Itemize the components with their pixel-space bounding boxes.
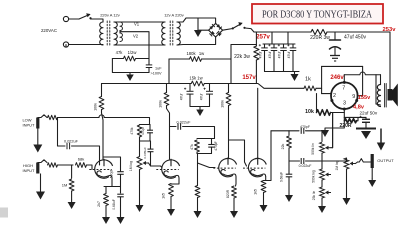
wire hop <box>99 115 104 118</box>
resistor 1k5 <box>169 184 174 197</box>
resistor 220R 3w <box>311 29 327 34</box>
wire <box>271 32 273 44</box>
wire <box>170 197 172 208</box>
resistor 2k7 <box>104 194 109 206</box>
wire cathode V1a <box>111 178 113 187</box>
wire <box>58 164 74 166</box>
svg-text:1M: 1M <box>62 183 68 188</box>
svg-text:7: 7 <box>342 86 345 92</box>
svg-text:POR D3C80 Y TONYGT-IBIZA: POR D3C80 Y TONYGT-IBIZA <box>262 9 372 21</box>
T1 core <box>106 21 108 46</box>
wire <box>105 206 107 214</box>
heater center tap wire <box>120 32 149 59</box>
svg-text:10k: 10k <box>305 109 314 115</box>
svg-text:246v: 246v <box>330 75 344 81</box>
wire <box>357 95 362 97</box>
wire V2a plate to V2b grid <box>229 140 247 166</box>
arrow to output jack <box>377 129 385 151</box>
wire <box>376 104 381 105</box>
title box <box>252 4 383 24</box>
wire <box>71 165 73 178</box>
switch SW1 blade <box>79 15 90 20</box>
wire <box>365 117 367 119</box>
wire <box>136 58 149 60</box>
wire <box>289 160 300 162</box>
wire <box>72 146 100 165</box>
svg-text:100k: 100k <box>158 100 162 108</box>
ground (cathode) <box>321 128 329 137</box>
svg-text:0.68uF: 0.68uF <box>280 172 284 182</box>
wire <box>283 44 285 48</box>
wire <box>334 32 336 40</box>
resistor (high) <box>48 163 58 167</box>
wire <box>327 31 390 33</box>
wire grid/screen node <box>321 66 323 93</box>
wire <box>202 58 232 60</box>
resistor 1M (grid leak) <box>195 186 200 198</box>
resistor 15k 1w <box>191 81 204 86</box>
wire <box>371 168 373 178</box>
T2 secondary winding <box>177 22 180 45</box>
wire <box>119 21 121 23</box>
ground <box>318 204 326 213</box>
preamp B+ rail <box>102 83 192 85</box>
wire <box>189 84 191 91</box>
capacitor 0.005uF <box>148 149 154 152</box>
winding V1 <box>120 22 122 31</box>
gray bar artifact <box>0 208 8 218</box>
standby switch dot <box>243 27 245 29</box>
svg-text:1k5: 1k5 <box>254 189 258 195</box>
ground arrow (rectifier) <box>194 18 202 37</box>
wire treble wiper <box>331 113 333 148</box>
wire <box>57 118 59 147</box>
wire <box>149 133 151 141</box>
ground <box>343 196 351 205</box>
wire <box>287 32 289 44</box>
wire <box>120 197 122 213</box>
resistor 180k 1w <box>190 57 202 62</box>
triode V1a <box>89 159 112 178</box>
svg-text:220VAC: 220VAC <box>41 28 57 33</box>
svg-text:47uf: 47uf <box>277 52 281 59</box>
ground <box>285 193 293 202</box>
svg-text:500k lin: 500k lin <box>311 143 315 155</box>
resistor 820R <box>232 186 237 198</box>
wire <box>316 94 318 113</box>
bridge diode mark <box>216 31 222 37</box>
svg-text:47uf: 47uf <box>287 52 291 59</box>
svg-text:0.022uF: 0.022uF <box>299 164 312 168</box>
wire <box>197 138 215 140</box>
ground <box>102 213 110 224</box>
wire <box>166 84 168 93</box>
wire <box>114 44 120 46</box>
svg-text:3: 3 <box>343 100 346 106</box>
socket pin <box>343 108 346 111</box>
svg-text:9: 9 <box>352 94 355 100</box>
ground (high jack) <box>36 174 45 200</box>
wire <box>197 154 199 186</box>
wire loop <box>112 59 149 73</box>
bridge diode mark <box>216 24 222 30</box>
wire <box>197 198 199 210</box>
triode V2b <box>243 157 266 176</box>
svg-text:2: 2 <box>333 93 336 99</box>
wire <box>149 125 151 131</box>
wire <box>197 153 212 155</box>
wire 157v rail <box>205 84 305 89</box>
wire <box>119 31 121 34</box>
svg-text:1M log: 1M log <box>129 161 133 171</box>
wire <box>196 152 198 154</box>
AC terminal N <box>63 42 68 47</box>
wire <box>331 112 345 114</box>
capacitor 47uf <box>184 88 194 95</box>
wire <box>263 193 265 201</box>
jack OUTPUT <box>371 154 374 168</box>
wire cathode <box>343 109 345 117</box>
wire <box>140 124 151 126</box>
svg-text:47uf: 47uf <box>258 52 262 59</box>
svg-text:157v: 157v <box>242 75 256 81</box>
wire <box>255 60 257 84</box>
resistor 68k (low) <box>48 115 58 119</box>
potentiometer 500k lin <box>320 142 331 153</box>
wire <box>211 139 213 145</box>
capacitor 47uf #1 <box>259 44 268 50</box>
svg-text:820R: 820R <box>226 189 230 198</box>
standby switch dot <box>232 27 234 29</box>
resistor 100k (V1b plate) <box>164 93 169 106</box>
capacitor 47uf <box>204 88 214 95</box>
capacitor 0.022uF <box>301 158 304 164</box>
wire <box>177 37 216 45</box>
wire <box>150 141 152 149</box>
capacitor 47uf #4 <box>287 44 296 50</box>
svg-text:68k: 68k <box>78 157 84 162</box>
wire <box>343 117 345 120</box>
switch contact dot <box>89 17 91 19</box>
wire <box>306 158 347 161</box>
wire <box>105 187 107 194</box>
wire to pin 9 <box>362 66 364 95</box>
triode V1b <box>156 159 179 178</box>
resistor 47k 1/2w <box>124 56 136 61</box>
svg-text:1k: 1k <box>305 77 311 83</box>
wire <box>389 85 391 89</box>
potentiometer 25k lin <box>320 187 331 198</box>
capacitor 470pF <box>208 145 215 148</box>
wire cathode follower out <box>266 131 271 181</box>
wire <box>292 44 294 48</box>
wire <box>65 45 67 48</box>
svg-text:22uf 50v: 22uf 50v <box>360 110 378 115</box>
T2 core <box>169 21 171 46</box>
wire <box>273 44 275 48</box>
wire to tone pot wiper <box>332 113 334 148</box>
wire <box>288 161 290 174</box>
resistor 22k <box>287 136 292 148</box>
resistor 1k5 <box>261 181 266 193</box>
wire cathode bus <box>344 116 366 118</box>
capacitor 22uf 50v <box>360 116 371 123</box>
capacitor 1uF <box>146 65 153 68</box>
wire to pin 2 <box>322 93 331 95</box>
jack LOW INPUT <box>36 118 39 129</box>
wire cathode bus <box>104 186 121 188</box>
ground (low jack) <box>33 129 42 153</box>
wire <box>168 59 170 84</box>
wire cap bank bottom bus <box>265 71 300 73</box>
ground (output jack) <box>368 178 376 187</box>
wire cathode V2b <box>264 177 266 181</box>
resistor 22k 3w <box>254 46 259 60</box>
wire plate V1b <box>167 106 170 160</box>
wire plate V2a <box>228 106 230 159</box>
wire plate to OT with hop <box>344 72 380 75</box>
svg-text:180k: 180k <box>186 51 196 56</box>
OT core <box>385 84 387 108</box>
OT primary winding <box>377 85 380 107</box>
svg-text:1k5: 1k5 <box>162 193 166 199</box>
resistor 470k <box>137 125 141 137</box>
ground <box>230 207 238 218</box>
wire <box>69 44 103 46</box>
ground <box>117 213 125 224</box>
wire <box>120 175 122 187</box>
OT core <box>384 84 386 108</box>
wire <box>223 29 232 31</box>
resistor 10k <box>317 110 331 116</box>
wire plate down <box>375 75 377 104</box>
svg-text:470pf: 470pf <box>141 127 145 135</box>
svg-text:2k7: 2k7 <box>97 201 101 207</box>
socket pin <box>343 81 346 84</box>
ground (3-bar) <box>330 56 340 62</box>
wire <box>119 21 121 23</box>
resistor 68k <box>76 163 87 168</box>
svg-text:>100V: >100V <box>151 71 163 75</box>
svg-text:1M log: 1M log <box>335 160 339 170</box>
wire B+ to OT <box>389 32 391 85</box>
svg-text:47uf: 47uf <box>268 52 272 59</box>
svg-text:22k 3w: 22k 3w <box>234 54 250 60</box>
wire to V2a grid <box>198 163 216 168</box>
svg-text:47uf: 47uf <box>199 94 203 101</box>
wire V2b plate to 157v rail <box>257 88 259 158</box>
wire wiper to V1b grid <box>149 163 163 168</box>
wire <box>264 51 266 72</box>
wire <box>365 122 367 128</box>
svg-text:22k: 22k <box>281 143 285 149</box>
svg-text:470k: 470k <box>130 127 134 135</box>
svg-text:220v A 12v: 220v A 12v <box>100 13 120 18</box>
resistor 1k <box>304 86 316 91</box>
ground <box>167 207 175 216</box>
wire <box>169 58 190 60</box>
wire <box>273 51 275 72</box>
svg-text:OUTPUT: OUTPUT <box>377 158 394 163</box>
wire <box>321 153 323 169</box>
svg-text:12v A 220v: 12v A 220v <box>164 13 184 18</box>
svg-text:47uf: 47uf <box>179 94 183 101</box>
wire <box>120 21 165 23</box>
svg-text:0.005uF: 0.005uF <box>143 147 147 158</box>
ground <box>194 209 202 218</box>
wire <box>316 87 322 89</box>
svg-text:0.022uF: 0.022uF <box>177 120 192 124</box>
ground <box>291 72 299 82</box>
wire <box>139 141 141 157</box>
capacitor 470pf <box>147 130 153 133</box>
wire <box>103 156 112 158</box>
wire <box>357 117 359 120</box>
svg-text:V2: V2 <box>133 34 139 39</box>
wire <box>380 75 382 85</box>
ground <box>126 73 134 82</box>
ground (bypass cap) <box>356 129 376 140</box>
socket pin <box>330 99 333 102</box>
svg-text:25k lin: 25k lin <box>312 191 316 201</box>
resistor 100k (V1a plate) <box>99 97 104 110</box>
wire cathode V2a <box>235 177 238 186</box>
ground <box>260 200 268 212</box>
wire plate V1a <box>102 110 104 160</box>
T1 secondary winding <box>114 22 117 45</box>
socket pin <box>355 99 358 102</box>
wire <box>334 48 336 55</box>
ground <box>136 203 144 212</box>
wire cathode V1b <box>171 178 179 184</box>
wire <box>321 198 323 204</box>
capacitor 0.022uF <box>67 143 70 150</box>
wire <box>183 127 215 139</box>
wire <box>288 148 290 161</box>
wire <box>231 44 256 46</box>
capacitor 0.022uF <box>178 123 181 130</box>
wire low channel <box>104 118 149 125</box>
AC terminal L <box>63 16 68 21</box>
T1 primary winding <box>100 22 103 45</box>
switch blade arrowhead <box>238 22 242 26</box>
wire low channel <box>58 117 100 119</box>
wire <box>346 169 348 196</box>
wire <box>170 126 177 128</box>
wire <box>325 121 344 128</box>
potentiometer 500k log <box>320 169 331 180</box>
wire <box>211 147 213 153</box>
wire to V1a grid <box>87 165 93 170</box>
bridge diode mark <box>209 24 215 30</box>
svg-text:155v: 155v <box>358 95 371 101</box>
wire <box>140 137 151 141</box>
svg-text:15k 1w: 15k 1w <box>189 75 203 80</box>
T2 primary winding <box>162 22 165 45</box>
svg-text:47uf 450v: 47uf 450v <box>344 35 366 41</box>
svg-text:100k: 100k <box>93 103 97 111</box>
wire <box>288 131 290 135</box>
wire <box>120 186 122 193</box>
triode V2a <box>213 157 236 176</box>
wire <box>148 68 150 73</box>
wire <box>321 180 323 187</box>
svg-text:253v: 253v <box>383 27 397 33</box>
wire <box>356 162 358 164</box>
wire <box>139 170 141 204</box>
capacitor 500pf <box>117 172 124 175</box>
svg-text:INPUT: INPUT <box>23 168 36 173</box>
svg-text:1/2w: 1/2w <box>128 50 138 55</box>
power tube socket <box>331 82 358 109</box>
svg-text:1uF: 1uF <box>155 66 162 70</box>
wire screen feed <box>322 65 363 67</box>
svg-text:100k: 100k <box>220 100 224 108</box>
wire <box>306 131 323 142</box>
jack HIGH INPUT <box>36 163 39 174</box>
capacitor 47uf #3 <box>278 44 287 50</box>
standby switch blade <box>234 24 242 29</box>
winding V2 <box>120 33 122 42</box>
wire <box>264 44 266 48</box>
svg-text:470pF: 470pF <box>214 141 218 150</box>
bridge rectifier D1 <box>209 23 223 37</box>
wire <box>233 198 235 207</box>
capacitor 0.68uF <box>117 194 124 197</box>
wire 257v rail <box>254 31 311 33</box>
wire plate <box>343 75 345 83</box>
resistor 220R <box>345 119 357 123</box>
ground <box>196 107 204 117</box>
capacitor 47uf #2 <box>268 44 277 50</box>
wire <box>69 18 79 20</box>
wire <box>288 177 290 193</box>
resistor 47k <box>195 140 200 152</box>
svg-text:0.022uF: 0.022uF <box>64 140 79 144</box>
wire <box>120 44 165 46</box>
jack tip contact <box>38 160 47 163</box>
wire cap bank top bus <box>263 43 295 45</box>
wire <box>228 84 230 93</box>
resistor 1M <box>69 179 74 191</box>
wire <box>177 18 216 24</box>
resistor 100k (V2a plate) <box>226 93 231 106</box>
switch blade arrowhead <box>86 13 90 17</box>
svg-text:500pf: 500pf <box>110 170 114 179</box>
wire <box>199 29 209 31</box>
svg-text:257v: 257v <box>256 33 270 40</box>
wire <box>209 84 211 91</box>
wire <box>58 145 66 147</box>
svg-text:500k log: 500k log <box>312 170 316 183</box>
jack tip contact <box>38 115 47 118</box>
svg-text:0.68uF: 0.68uF <box>112 199 116 210</box>
capacitor 470pF <box>301 128 304 134</box>
T2 core <box>172 21 174 46</box>
wire <box>255 32 257 46</box>
wire <box>114 21 120 23</box>
wire jack tip contact <box>358 159 371 162</box>
speaker <box>388 84 398 107</box>
potentiometer 1M log master <box>344 158 355 169</box>
capacitor 47uf 450v top plate <box>330 39 341 41</box>
potentiometer 1M log <box>137 157 148 170</box>
wire <box>190 94 210 106</box>
wire <box>283 51 285 72</box>
T1 core <box>109 21 111 46</box>
wire <box>292 51 294 72</box>
wire <box>148 59 150 65</box>
